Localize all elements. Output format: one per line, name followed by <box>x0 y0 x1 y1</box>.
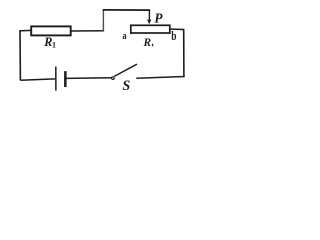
svg-text:R: R <box>43 35 52 49</box>
resistor R1 <box>31 26 70 35</box>
wire R1 right to step corner <box>71 30 104 32</box>
switch hinge circle <box>112 77 115 80</box>
svg-text:1: 1 <box>52 41 56 50</box>
wire top-left horizontal <box>19 29 31 32</box>
rheostat R2 box <box>131 25 170 33</box>
slider arrow P shaft <box>148 10 150 20</box>
svg-text:S: S <box>122 78 130 94</box>
battery long plate <box>55 67 57 91</box>
wire bottom-left to battery <box>20 79 55 80</box>
wire top horizontal <box>103 9 150 11</box>
wire rheostat b to right corner <box>171 28 185 30</box>
wire left vertical <box>19 30 21 80</box>
battery short plate <box>64 71 67 87</box>
rheostat bottom-right corner overshoot <box>169 32 171 35</box>
rheostat bottom-left corner overshoot <box>130 33 132 34</box>
slider arrowhead <box>147 20 151 25</box>
wire right vertical <box>183 30 185 78</box>
wire bottom right <box>136 77 184 79</box>
wire step vertical up <box>102 10 104 31</box>
svg-text:a: a <box>122 31 126 42</box>
label R2 subscript mark <box>152 44 153 47</box>
switch lever <box>114 64 137 76</box>
svg-text:b: b <box>171 30 176 44</box>
wire battery to switch <box>66 77 111 80</box>
svg-text:R: R <box>143 37 152 49</box>
svg-text:P: P <box>154 10 163 25</box>
